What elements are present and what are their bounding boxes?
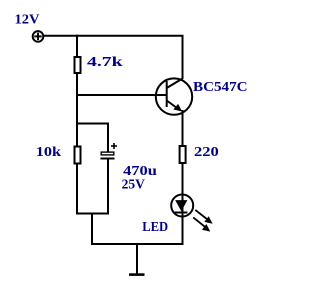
svg-text:10k: 10k <box>36 145 62 160</box>
capacitor C1 470u 25V <box>101 143 118 159</box>
resistor R3 220 body <box>180 146 186 163</box>
resistor R2 10k body <box>75 147 81 164</box>
wire base <box>77 94 167 96</box>
svg-text:4.7k: 4.7k <box>87 55 123 70</box>
svg-text:BC547C: BC547C <box>193 80 248 95</box>
wire top rail and collector drop <box>44 36 183 79</box>
LED light arrow 2 <box>193 217 210 231</box>
svg-text:220: 220 <box>194 145 219 160</box>
wire left branch vertical <box>76 35 78 214</box>
wire bottom junction horizontal <box>76 213 109 215</box>
wire cap branch vertical lower <box>107 160 109 214</box>
LED light arrow 1 <box>195 210 212 224</box>
LED D1 <box>171 195 193 217</box>
resistor R1 4.7k body <box>75 57 81 73</box>
ground <box>129 244 145 275</box>
svg-text:LED: LED <box>142 220 168 235</box>
svg-text:25V: 25V <box>122 178 145 193</box>
wire junction drop and bottom rail <box>92 214 184 245</box>
wire cap branch horizontal and vertical upper <box>77 124 108 153</box>
transistor Q1 BC547C <box>156 78 192 114</box>
svg-text:12V: 12V <box>15 12 40 27</box>
wire emitter vertical down <box>182 110 184 244</box>
terminal +12V supply <box>33 31 44 42</box>
